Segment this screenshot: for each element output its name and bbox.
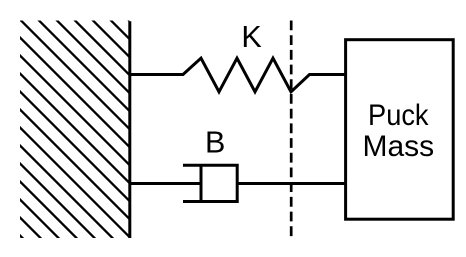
damper B : left rod wire (131, 182, 201, 185)
svg-text:Puck: Puck (368, 99, 429, 132)
svg-text:B: B (205, 125, 225, 159)
wall face line (128, 21, 131, 238)
svg-text:Mass: Mass (362, 130, 434, 163)
svg-text:K: K (241, 20, 261, 54)
damper B : cylinder top plate (183, 164, 239, 167)
damper B : right rod wire (237, 182, 345, 185)
damper B : cylinder bottom plate (183, 200, 239, 203)
wall hatching (0, 0, 369, 257)
damper B : piston plate (200, 164, 203, 203)
mass block (Puck Mass) (346, 40, 454, 220)
dashed reference line (equilibrium position) (290, 21, 293, 238)
damper B : cylinder right cap (236, 164, 239, 203)
spring K (zigzag with lead wires from wall to mass) (131, 58, 346, 92)
